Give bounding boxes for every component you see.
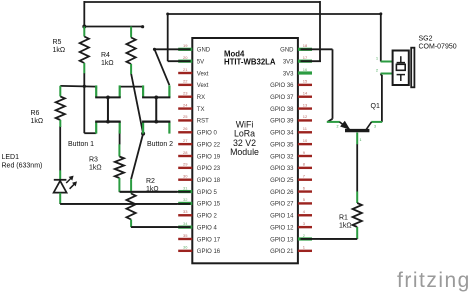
svg-text:10: 10 <box>303 138 308 143</box>
svg-text:26: 26 <box>183 126 188 131</box>
svg-text:11: 11 <box>303 126 308 131</box>
pin 35 GPIO 17 <box>178 238 192 240</box>
module right pins <box>270 43 312 255</box>
wire R1 to GPIO 13 <box>320 237 357 240</box>
svg-text:GPIO 39: GPIO 39 <box>270 119 294 125</box>
svg-text:36: 36 <box>183 245 188 250</box>
node wire endpoint <box>141 25 144 28</box>
pin 25 RST <box>178 119 192 121</box>
svg-text:Button 2: Button 2 <box>147 141 173 148</box>
svg-text:27: 27 <box>183 138 188 143</box>
pin 26 GPIO 0 <box>178 131 192 133</box>
wire 5V pin 20 horizontal <box>168 60 191 62</box>
pin 10 GPIO 35 <box>298 143 312 145</box>
svg-text:3V3: 3V3 <box>283 71 294 77</box>
pin 20 5V <box>178 60 192 63</box>
svg-text:13: 13 <box>303 102 308 107</box>
svg-text:4: 4 <box>303 209 306 214</box>
pin 21 Vext <box>178 72 192 74</box>
svg-text:1kΩ: 1kΩ <box>89 165 102 172</box>
wire 3V3 pin 17 horizontal <box>301 60 322 62</box>
wire 5V rail horizontal <box>168 13 381 15</box>
svg-text:3: 3 <box>303 221 306 226</box>
svg-text:GPIO 23: GPIO 23 <box>197 166 221 172</box>
svg-text:LED1: LED1 <box>2 154 20 161</box>
svg-text:R4: R4 <box>101 52 110 59</box>
pin 15 GPIO 36 <box>298 84 312 86</box>
wire GPIO 15 core <box>60 203 190 205</box>
svg-text:15: 15 <box>303 79 308 84</box>
svg-text:18: 18 <box>303 43 308 48</box>
wire R2 to GPIO 4 <box>131 226 177 229</box>
transistor Q1 PNP <box>327 103 382 144</box>
svg-text:fritzing: fritzing <box>397 269 471 292</box>
wire GPIO 13 core <box>301 238 358 240</box>
svg-text:23: 23 <box>183 91 188 96</box>
pin 1 GPIO 21 <box>298 250 312 252</box>
wire GND pin 18 horizontal <box>301 48 333 50</box>
pin 9 GPIO 32 <box>298 155 312 157</box>
pin 16 3V3 <box>298 71 312 74</box>
svg-text:22: 22 <box>183 79 188 84</box>
svg-text:GPIO 21: GPIO 21 <box>270 249 294 255</box>
pin 29 GPIO 23 <box>178 167 192 169</box>
svg-text:34: 34 <box>183 221 188 226</box>
pin 8 GPIO 33 <box>298 167 312 169</box>
svg-text:6: 6 <box>303 185 306 190</box>
svg-text:2: 2 <box>337 125 339 129</box>
svg-text:R5: R5 <box>53 39 62 46</box>
svg-text:5V: 5V <box>197 59 204 65</box>
svg-text:19: 19 <box>183 43 188 48</box>
svg-text:GPIO 35: GPIO 35 <box>270 142 294 148</box>
svg-text:2: 2 <box>303 233 306 238</box>
svg-text:GPIO 18: GPIO 18 <box>197 178 221 184</box>
fritzing watermark <box>397 269 471 292</box>
svg-text:24: 24 <box>183 102 188 107</box>
svg-text:GPIO 17: GPIO 17 <box>197 237 221 243</box>
pushbutton Button 2 <box>142 85 173 148</box>
svg-text:TX: TX <box>197 107 205 113</box>
svg-text:GND: GND <box>280 48 294 54</box>
module left pins <box>178 43 221 255</box>
svg-text:20: 20 <box>183 55 188 60</box>
resistor R6 1kΩ <box>31 86 65 127</box>
pin 12 GPIO 39 <box>298 119 312 121</box>
pushbutton Button 1 <box>68 85 121 148</box>
pin 3 GPIO 12 <box>298 226 312 228</box>
pin 22 Vext <box>178 84 192 86</box>
wire GPIO 4 core <box>131 226 190 228</box>
svg-text:GPIO 14: GPIO 14 <box>270 214 294 220</box>
svg-text:33: 33 <box>183 209 188 214</box>
wire Button 1 bottom-right to R3 <box>119 131 121 145</box>
resistor R4 1kΩ <box>101 27 136 75</box>
svg-text:1kΩ: 1kΩ <box>101 60 114 67</box>
wire R4 diagonal to Button 2 bottom-left <box>131 74 143 134</box>
wire 5V rail drop to pin 20 <box>167 13 169 61</box>
speaker SG2 COM-07950 <box>376 36 457 88</box>
svg-text:1kΩ: 1kΩ <box>339 223 352 230</box>
svg-text:29: 29 <box>183 162 188 167</box>
resistor R3 1kΩ <box>89 144 124 192</box>
svg-text:7: 7 <box>303 174 306 179</box>
svg-text:32: 32 <box>183 197 188 202</box>
svg-text:R3: R3 <box>89 157 98 164</box>
resistor R5 1kΩ <box>53 27 89 74</box>
wire GND diagonal to Button 2 <box>155 49 170 85</box>
svg-text:GPIO 12: GPIO 12 <box>270 225 294 231</box>
wire R3 to GPIO 5 <box>119 190 177 192</box>
svg-text:Vext: Vext <box>197 83 209 89</box>
svg-text:GPIO 33: GPIO 33 <box>270 166 294 172</box>
svg-text:GPIO 4: GPIO 4 <box>197 225 218 231</box>
wire R6 to LED1 <box>59 126 61 171</box>
wire 3V3 top rail horizontal <box>84 1 320 3</box>
svg-text:COM-07950: COM-07950 <box>419 44 457 51</box>
wire GND pin 19 horizontal <box>155 48 191 50</box>
svg-text:3: 3 <box>374 125 376 129</box>
wire 3V3 rail drop to R5/R4 node <box>83 1 85 27</box>
svg-text:Button 1: Button 1 <box>68 141 94 148</box>
svg-text:GPIO 27: GPIO 27 <box>270 202 294 208</box>
svg-text:5: 5 <box>303 197 306 202</box>
svg-text:2: 2 <box>376 69 378 73</box>
svg-text:GPIO 15: GPIO 15 <box>197 202 221 208</box>
svg-text:R1: R1 <box>339 215 348 222</box>
pin 2 GPIO 13 <box>298 237 312 240</box>
svg-text:GPIO 36: GPIO 36 <box>270 83 294 89</box>
bendpoint 5V rail right <box>379 12 382 15</box>
wire R5-R4 top connection <box>84 26 142 28</box>
pin 24 TX <box>178 107 192 109</box>
junction Button 2 bottom-left pin <box>141 132 145 136</box>
svg-text:Module: Module <box>230 147 259 157</box>
svg-text:28: 28 <box>183 150 188 155</box>
svg-text:Red (633nm): Red (633nm) <box>2 163 43 170</box>
wire GND pin 18 vertical to Q1 emitter <box>328 49 333 122</box>
pin 18 GND <box>298 48 312 51</box>
svg-text:17: 17 <box>303 55 308 60</box>
junction node R5 top <box>82 25 86 29</box>
svg-text:GND: GND <box>197 48 211 54</box>
svg-text:GPIO 5: GPIO 5 <box>197 190 218 196</box>
wire Button 2 diagonal to R2 top <box>131 134 143 180</box>
svg-text:RST: RST <box>197 119 209 125</box>
pin 4 GPIO 14 <box>298 214 312 216</box>
module Mod4 HTIT-WB32LA body <box>192 38 298 263</box>
pin 36 GPIO 16 <box>178 250 192 252</box>
resistor R1 1kΩ <box>339 192 362 239</box>
svg-text:R6: R6 <box>31 110 40 117</box>
svg-text:8: 8 <box>303 162 306 167</box>
svg-text:1kΩ: 1kΩ <box>53 47 66 54</box>
svg-text:GPIO 16: GPIO 16 <box>197 249 221 255</box>
pin 17 3V3 <box>298 60 312 63</box>
wire speaker pin 2 to Q1 collector <box>381 74 382 122</box>
svg-text:SG2: SG2 <box>419 36 433 43</box>
pin 14 GPIO 37 <box>298 96 312 98</box>
resistor R2 1kΩ <box>127 178 159 227</box>
svg-text:GPIO 37: GPIO 37 <box>270 95 294 101</box>
svg-text:31: 31 <box>183 185 188 190</box>
svg-text:14: 14 <box>303 91 308 96</box>
pin 11 GPIO 34 <box>298 131 312 133</box>
wire Q1 base to R1 <box>356 144 358 192</box>
pin 28 GPIO 19 <box>178 155 192 157</box>
svg-text:1: 1 <box>360 138 362 142</box>
svg-text:R2: R2 <box>146 178 155 185</box>
pin 31 GPIO 5 <box>178 190 192 193</box>
svg-text:GPIO 32: GPIO 32 <box>270 154 294 160</box>
svg-text:GPIO 19: GPIO 19 <box>197 154 221 160</box>
pin 23 RX <box>178 96 192 98</box>
pin 34 GPIO 4 <box>178 226 192 229</box>
pin 19 GND <box>178 48 192 51</box>
wire 5V rail drop to speaker pin 1 <box>380 13 382 62</box>
LED LED1 Red 633nm <box>2 154 78 204</box>
svg-text:3V3: 3V3 <box>283 59 294 65</box>
svg-text:12: 12 <box>303 114 308 119</box>
svg-text:30: 30 <box>183 174 188 179</box>
pin 13 GPIO 38 <box>298 107 312 109</box>
svg-text:GPIO 2: GPIO 2 <box>197 214 218 220</box>
svg-text:25: 25 <box>183 114 188 119</box>
svg-text:1: 1 <box>376 57 378 61</box>
svg-text:HTIT-WB32LA: HTIT-WB32LA <box>224 57 276 66</box>
svg-text:GPIO 22: GPIO 22 <box>197 142 221 148</box>
svg-text:9: 9 <box>303 150 306 155</box>
svg-text:1kΩ: 1kΩ <box>31 118 44 125</box>
svg-text:GPIO 25: GPIO 25 <box>270 178 294 184</box>
pin 5 GPIO 27 <box>298 202 312 204</box>
pin 30 GPIO 18 <box>178 179 192 181</box>
pin 7 GPIO 25 <box>298 179 312 181</box>
svg-text:RX: RX <box>197 95 205 101</box>
svg-text:Q1: Q1 <box>371 103 380 110</box>
bendpoint 5V rail left <box>166 13 169 16</box>
svg-text:Vext: Vext <box>197 71 209 77</box>
pin 32 GPIO 15 <box>178 202 192 205</box>
svg-text:GPIO 26: GPIO 26 <box>270 190 294 196</box>
wire Button 1 to Button 2 top <box>120 86 143 88</box>
svg-text:GPIO 38: GPIO 38 <box>270 107 294 113</box>
svg-text:21: 21 <box>183 67 188 72</box>
pin 27 GPIO 22 <box>178 143 192 145</box>
pin 33 GPIO 2 <box>178 214 192 216</box>
svg-text:16: 16 <box>303 67 308 72</box>
svg-text:1: 1 <box>303 245 306 250</box>
wire R5 vertical to Button 1 bottom-left <box>84 73 96 133</box>
bendpoint GND wire <box>153 48 156 51</box>
wire LED1 to GPIO 15 <box>60 202 177 205</box>
wire R6 to Button 1 top-left <box>60 86 96 89</box>
svg-text:GPIO 0: GPIO 0 <box>197 131 218 137</box>
junction R5 column on wire <box>83 85 86 88</box>
wire 3V3 rail vertical to pin 17 <box>319 1 321 61</box>
svg-text:35: 35 <box>183 233 188 238</box>
wire GPIO 5 core <box>120 191 191 193</box>
pin 6 GPIO 26 <box>298 190 312 192</box>
svg-text:GPIO 13: GPIO 13 <box>270 237 294 243</box>
svg-text:GPIO 34: GPIO 34 <box>270 131 294 137</box>
